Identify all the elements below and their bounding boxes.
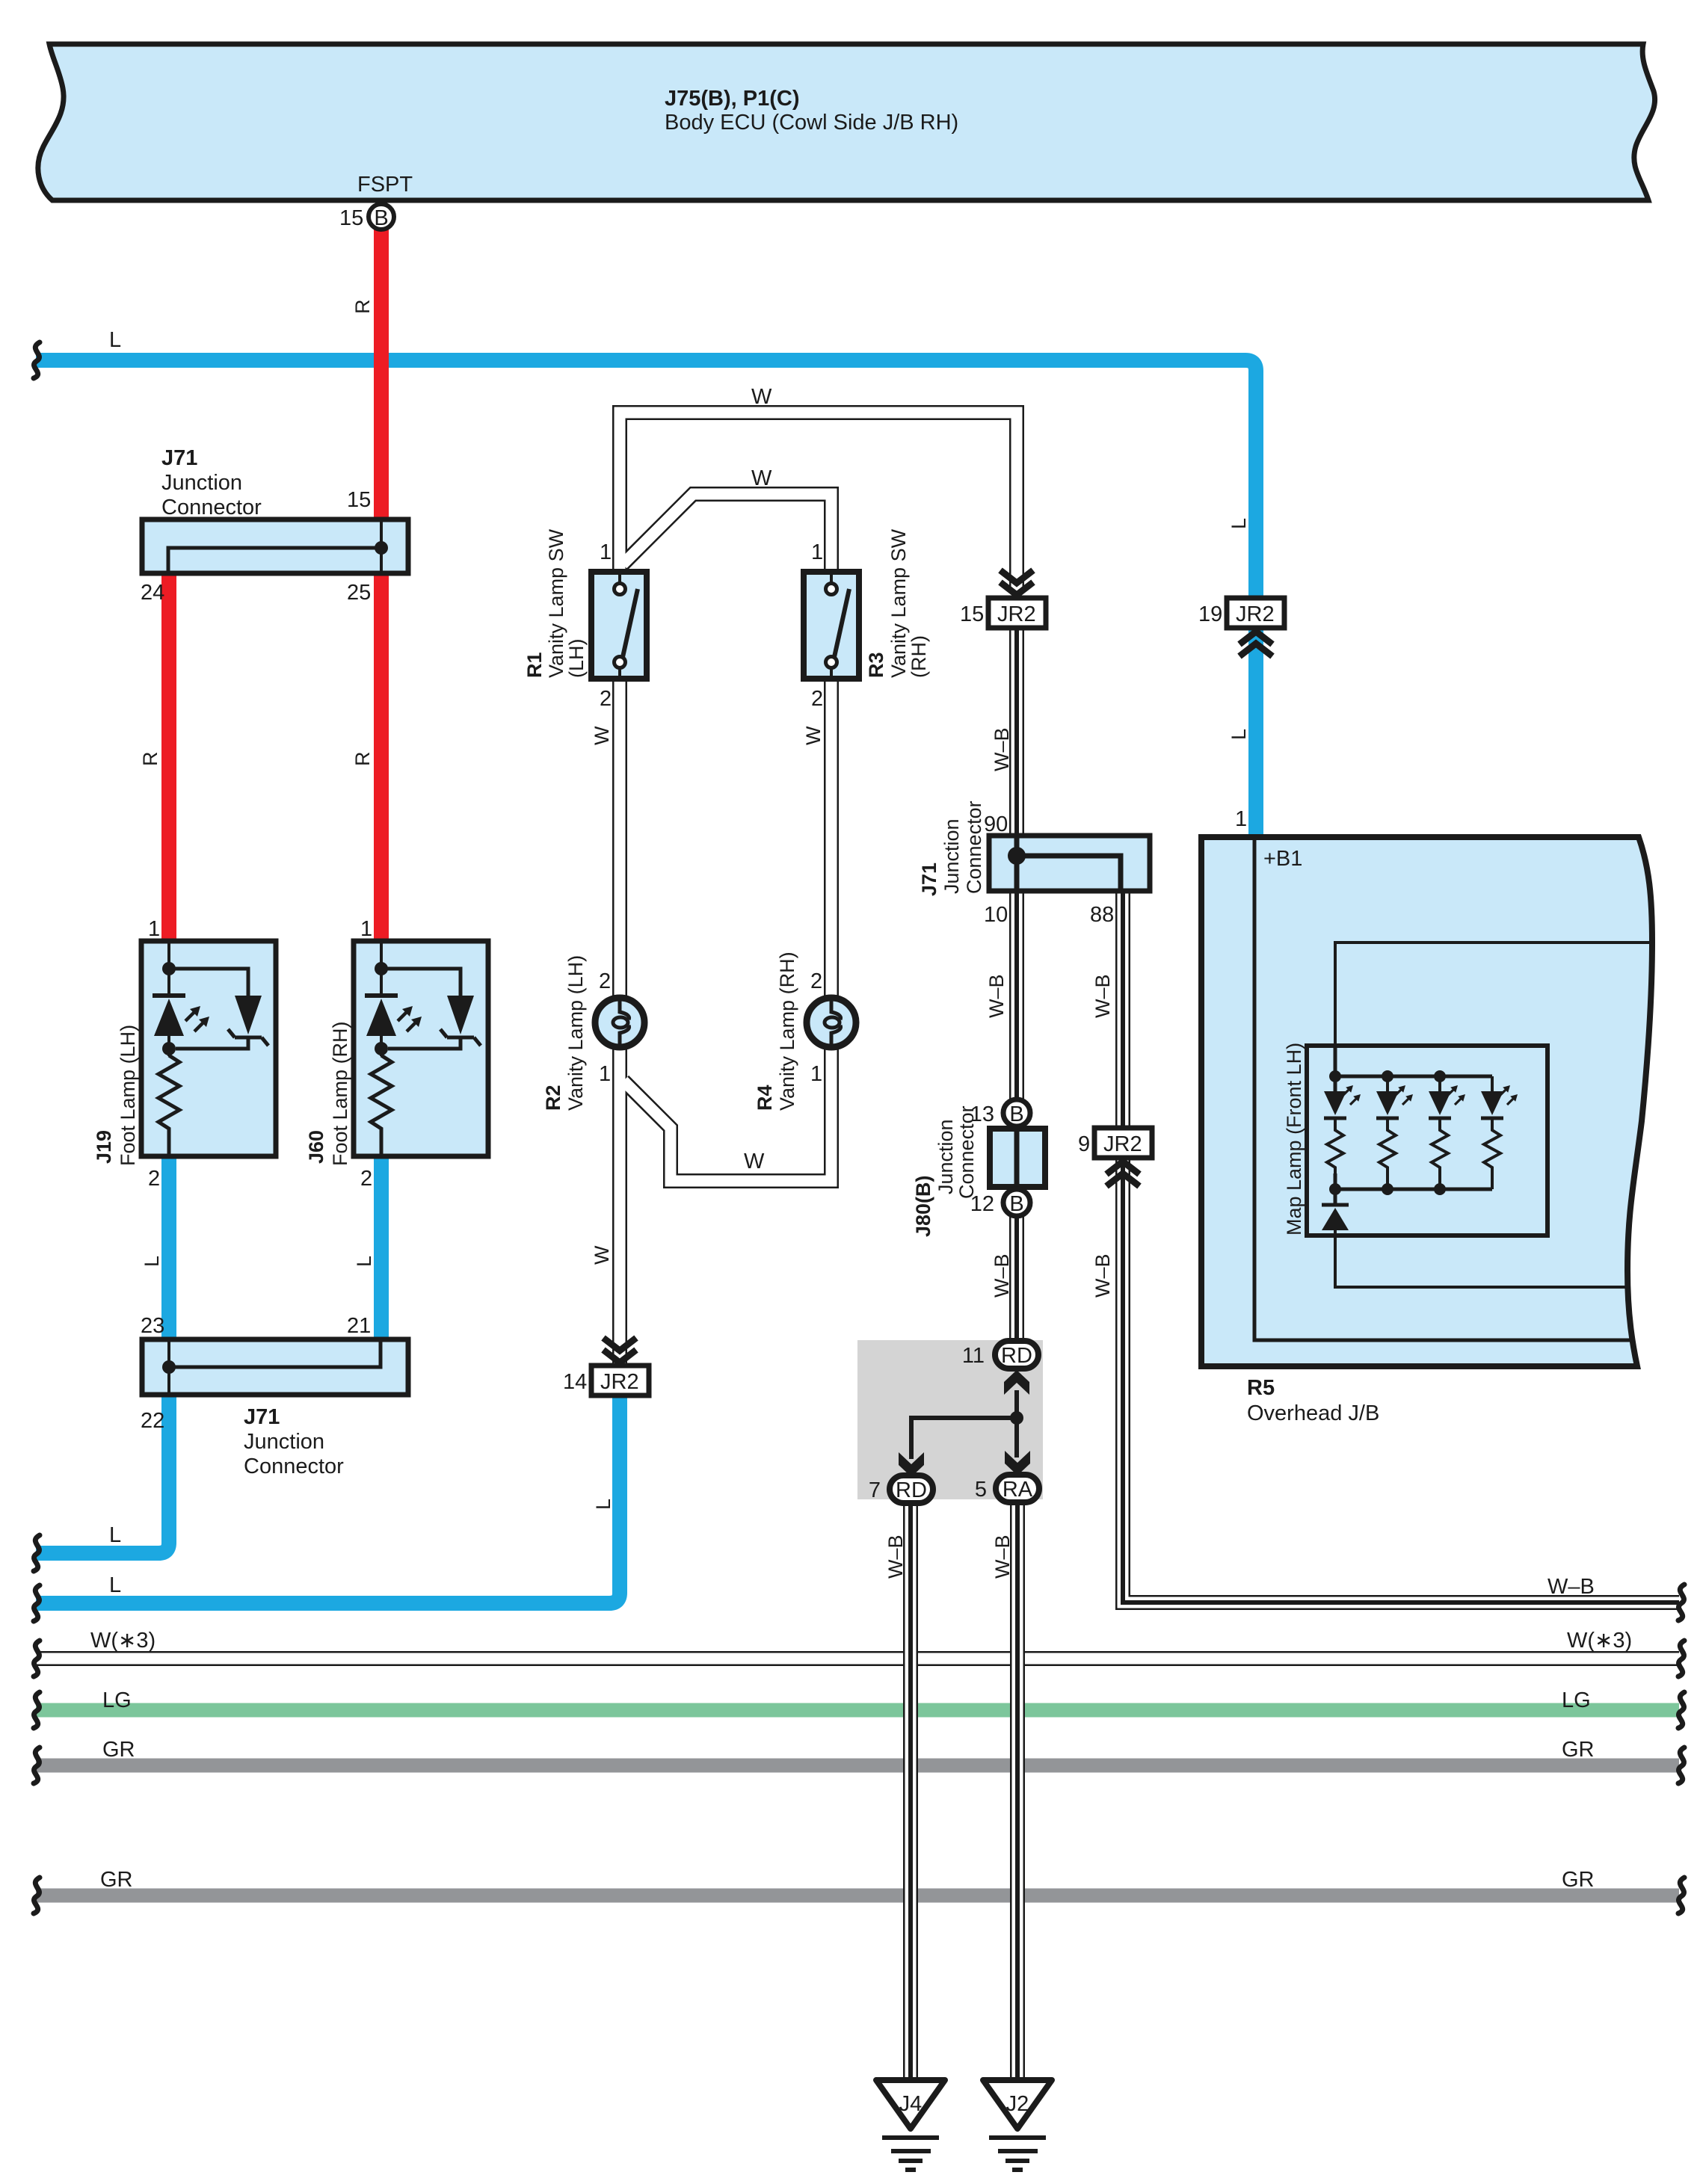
foot lamp J60 box (305, 917, 488, 1267)
svg-text:1: 1 (599, 1062, 611, 1086)
svg-text:L: L (109, 1523, 121, 1547)
svg-text:2: 2 (600, 687, 612, 711)
svg-text:J71: J71 (244, 1405, 280, 1429)
wire W-B J80 pin 12 to overhead J/B pin 11 (991, 1217, 1017, 1342)
svg-text:23: 23 (141, 1314, 164, 1338)
svg-text:2: 2 (811, 687, 823, 711)
right edge wire break squiggles (1678, 1585, 1684, 1913)
svg-text:Body ECU (Cowl Side J/B RH): Body ECU (Cowl Side J/B RH) (665, 111, 958, 135)
svg-text:L: L (1228, 729, 1250, 740)
svg-text:12: 12 (970, 1192, 994, 1216)
svg-text:R4: R4 (754, 1085, 776, 1111)
R5 internal +B1 bus line (1254, 837, 1633, 1340)
svg-text:Foot Lamp (RH): Foot Lamp (RH) (329, 1021, 351, 1166)
svg-text:J60: J60 (305, 1130, 327, 1164)
svg-text:Junction: Junction (161, 471, 242, 495)
svg-text:LG: LG (1562, 1688, 1591, 1712)
svg-text:5: 5 (975, 1478, 987, 1502)
svg-text:Junction: Junction (934, 1119, 957, 1194)
svg-text:W–B: W–B (985, 974, 1008, 1018)
connector JR2 14 (563, 1338, 649, 1510)
pin 12 B circle (970, 1189, 1030, 1216)
svg-text:15: 15 (960, 602, 984, 626)
svg-text:21: 21 (347, 1314, 371, 1338)
svg-text:J80(B): J80(B) (912, 1175, 934, 1237)
wire W white R1 pin 1 to JR2 15 and branch to R3 pin 1 (620, 385, 1017, 590)
svg-text:J19: J19 (93, 1130, 115, 1164)
svg-text:W(∗3): W(∗3) (1567, 1629, 1632, 1653)
svg-text:B: B (1009, 1192, 1023, 1216)
svg-text:W–B: W–B (1091, 974, 1114, 1018)
svg-text:(RH): (RH) (908, 635, 930, 678)
svg-text:W: W (751, 385, 772, 409)
ground J4 (876, 2080, 945, 2170)
svg-text:90: 90 (984, 812, 1008, 836)
R label red wire FSPT (351, 300, 374, 315)
svg-text:B: B (1009, 1102, 1023, 1126)
svg-text:LG: LG (102, 1688, 132, 1712)
svg-text:W–B: W–B (991, 727, 1013, 771)
wire W-B J71 pin 88 to JR2 9 (1091, 889, 1123, 1130)
svg-text:24: 24 (141, 581, 164, 605)
map lamp LED branch 4 (1481, 1085, 1518, 1173)
svg-text:J71: J71 (161, 446, 197, 470)
J60 internal LED circuit (365, 943, 481, 1155)
svg-text:9: 9 (1078, 1132, 1090, 1156)
svg-text:RA: RA (1003, 1478, 1033, 1502)
junction connector J80(B) (912, 1105, 1045, 1237)
svg-text:R5: R5 (1247, 1376, 1275, 1400)
wire W-B JR2 9 down and right to edge (1091, 1156, 1679, 1602)
R label red wire 24 (139, 752, 161, 767)
gray relay block box (857, 1340, 1043, 1499)
wire W white R1 pin 2 to R2 pin 2 (591, 677, 620, 996)
wire GR horizontal (36, 1738, 1679, 1765)
R5 internal feed line to map lamp (1335, 943, 1651, 1048)
map lamp LED branch 2 (1376, 1085, 1413, 1173)
vanity lamp switch R1 (523, 528, 647, 711)
svg-text:L: L (109, 1573, 121, 1597)
left edge wire break squiggles (34, 342, 40, 1913)
svg-text:GR: GR (1562, 1868, 1595, 1892)
svg-text:Junction: Junction (940, 818, 963, 894)
connector JR2 9 (1078, 1128, 1152, 1186)
svg-text:25: 25 (347, 581, 371, 605)
svg-text:Vanity Lamp (RH): Vanity Lamp (RH) (776, 951, 798, 1111)
map lamp (Front LH) box (1283, 1043, 1547, 1236)
svg-text:GR: GR (102, 1738, 135, 1762)
svg-text:R: R (139, 752, 161, 767)
vanity lamp switch R3 (804, 528, 930, 711)
connector banner J75(B) P1(C) Body ECU (38, 44, 1655, 200)
svg-text:1: 1 (148, 917, 160, 941)
connector JR2 15 (960, 570, 1046, 628)
svg-text:W–B: W–B (884, 1534, 907, 1579)
svg-text:11: 11 (962, 1344, 985, 1368)
svg-text:(LH): (LH) (565, 639, 588, 679)
overhead J/B R5 box (1201, 837, 1652, 1425)
R label red wire 25 (351, 752, 374, 767)
svg-text:7: 7 (869, 1478, 881, 1502)
svg-text:L: L (1228, 518, 1250, 529)
svg-text:R1: R1 (523, 652, 546, 678)
svg-text:W–B: W–B (1091, 1253, 1114, 1298)
junction connector J71 middle (918, 801, 1150, 927)
svg-text:Vanity Lamp SW: Vanity Lamp SW (887, 528, 910, 678)
svg-text:Connector: Connector (244, 1455, 344, 1478)
svg-text:L: L (353, 1256, 375, 1267)
svg-text:Connector: Connector (963, 801, 985, 894)
svg-text:15: 15 (347, 488, 371, 512)
svg-text:Vanity Lamp SW: Vanity Lamp SW (545, 528, 567, 678)
svg-text:W: W (591, 1245, 613, 1265)
svg-text:W–B: W–B (1547, 1575, 1595, 1599)
wire W-B JR2 15 to J71 pin 90 (991, 626, 1017, 837)
svg-text:W: W (751, 466, 772, 490)
pin 5 RA oval (975, 1475, 1039, 1502)
svg-text:W–B: W–B (991, 1534, 1014, 1579)
svg-text:GR: GR (100, 1868, 133, 1892)
svg-text:R: R (351, 752, 374, 767)
wire LG horizontal (36, 1688, 1679, 1712)
svg-text:2: 2 (599, 969, 611, 993)
svg-text:L: L (592, 1499, 615, 1510)
svg-text:2: 2 (360, 1167, 372, 1191)
svg-text:22: 22 (141, 1409, 164, 1433)
svg-text:J71: J71 (918, 863, 940, 896)
svg-text:15: 15 (339, 206, 363, 230)
wire L blue JR2 19 to R5 pin 1 (1248, 626, 1263, 839)
svg-text:RD: RD (1001, 1344, 1032, 1368)
wire GR horizontal lower (36, 1868, 1679, 1895)
wire L blue J19 pin 2 to J71 pin 23 (161, 1155, 176, 1341)
svg-text:FSPT: FSPT (357, 173, 413, 197)
gray box internal wiring with arrows (899, 1370, 1030, 1477)
wire L blue J71 pin 22 to left edge (36, 1393, 169, 1553)
wire W-B J71 pin 10 to J80 pin 13 (985, 889, 1017, 1100)
svg-text:19: 19 (1198, 602, 1222, 626)
svg-text:Junction: Junction (244, 1430, 324, 1454)
svg-text:JR2: JR2 (1103, 1132, 1142, 1156)
svg-text:W: W (591, 726, 613, 745)
connector JR2 19 (1198, 518, 1284, 831)
svg-text:JR2: JR2 (600, 1370, 639, 1394)
map lamp LED branch 3 (1429, 1085, 1465, 1173)
svg-text:Vanity Lamp (LH): Vanity Lamp (LH) (564, 955, 587, 1111)
svg-text:88: 88 (1090, 903, 1114, 927)
wire W-B pin 7 to ground J4 (884, 1501, 911, 2080)
svg-text:W(∗3): W(∗3) (90, 1629, 155, 1653)
svg-text:13: 13 (970, 1102, 994, 1126)
svg-text:W: W (802, 726, 825, 745)
svg-text:2: 2 (148, 1167, 160, 1191)
vanity lamp R4 (754, 951, 856, 1111)
svg-text:1: 1 (811, 540, 823, 564)
wire R red J71 pin 25 to J60 pin 1 (374, 572, 389, 943)
pin 13 B circle (970, 1099, 1030, 1126)
svg-text:2: 2 (810, 969, 822, 993)
wire W-B pin 5 to ground J2 (991, 1501, 1017, 2080)
svg-text:Foot Lamp (LH): Foot Lamp (LH) (117, 1025, 139, 1166)
svg-text:Map Lamp (Front LH): Map Lamp (Front LH) (1283, 1043, 1305, 1236)
J19 internal LED circuit (153, 943, 268, 1155)
pin B circle on body ECU FSPT (339, 204, 394, 230)
vanity lamp R2 (542, 955, 644, 1111)
wire R red J71 pin 24 to J19 pin 1 (161, 572, 176, 943)
wire L blue main from body ECU area to JR2 19 (36, 328, 1256, 599)
svg-text:Overhead J/B: Overhead J/B (1247, 1401, 1379, 1425)
svg-text:14: 14 (563, 1370, 587, 1394)
svg-text:JR2: JR2 (997, 602, 1036, 626)
svg-text:W–B: W–B (991, 1253, 1013, 1298)
junction connector J71 lower (141, 1314, 408, 1478)
wire W white R2 pin 1 down to JR2 14 and jog to R4 pin 1 (591, 1049, 831, 1368)
svg-text:B: B (374, 206, 388, 230)
pin 11 RD oval (962, 1341, 1038, 1369)
svg-text:+B1: +B1 (1263, 847, 1302, 871)
svg-text:Connector: Connector (161, 496, 262, 519)
wire W(*3) horizontal white (36, 1629, 1679, 1659)
svg-text:W: W (744, 1150, 765, 1173)
wire L blue JR2 14 to left edge (36, 1393, 620, 1603)
ground J2 (983, 2080, 1052, 2170)
svg-text:R2: R2 (542, 1085, 564, 1111)
diode in overhead J/B output (1322, 1205, 1349, 1230)
wire R red FSPT to J71 pin 15 (374, 229, 389, 521)
map lamp LED branch 1 (1324, 1085, 1361, 1173)
map lamp internal buses (1329, 1048, 1492, 1205)
foot lamp J19 box (93, 917, 276, 1267)
svg-text:J75(B), P1(C): J75(B), P1(C) (665, 87, 800, 111)
svg-text:RD: RD (896, 1478, 927, 1502)
svg-text:GR: GR (1562, 1738, 1595, 1762)
svg-text:R3: R3 (865, 652, 887, 678)
svg-text:1: 1 (600, 540, 612, 564)
pin 7 RD oval (869, 1475, 933, 1503)
svg-text:10: 10 (984, 903, 1008, 927)
svg-text:L: L (141, 1256, 163, 1267)
svg-text:1: 1 (810, 1062, 822, 1086)
svg-text:JR2: JR2 (1236, 602, 1275, 626)
junction connector J71 upper (141, 446, 408, 605)
wire L blue J60 pin 2 to J71 pin 21 (374, 1155, 389, 1341)
svg-text:L: L (109, 328, 121, 352)
R5 internal output line from map lamp (1335, 1229, 1630, 1287)
wire W white R3 pin 2 to R4 pin 2 (802, 677, 831, 996)
svg-text:J4: J4 (899, 2092, 923, 2116)
svg-text:J2: J2 (1006, 2092, 1029, 2116)
svg-text:1: 1 (1235, 807, 1247, 831)
svg-text:R: R (351, 300, 374, 315)
svg-text:1: 1 (360, 917, 372, 941)
